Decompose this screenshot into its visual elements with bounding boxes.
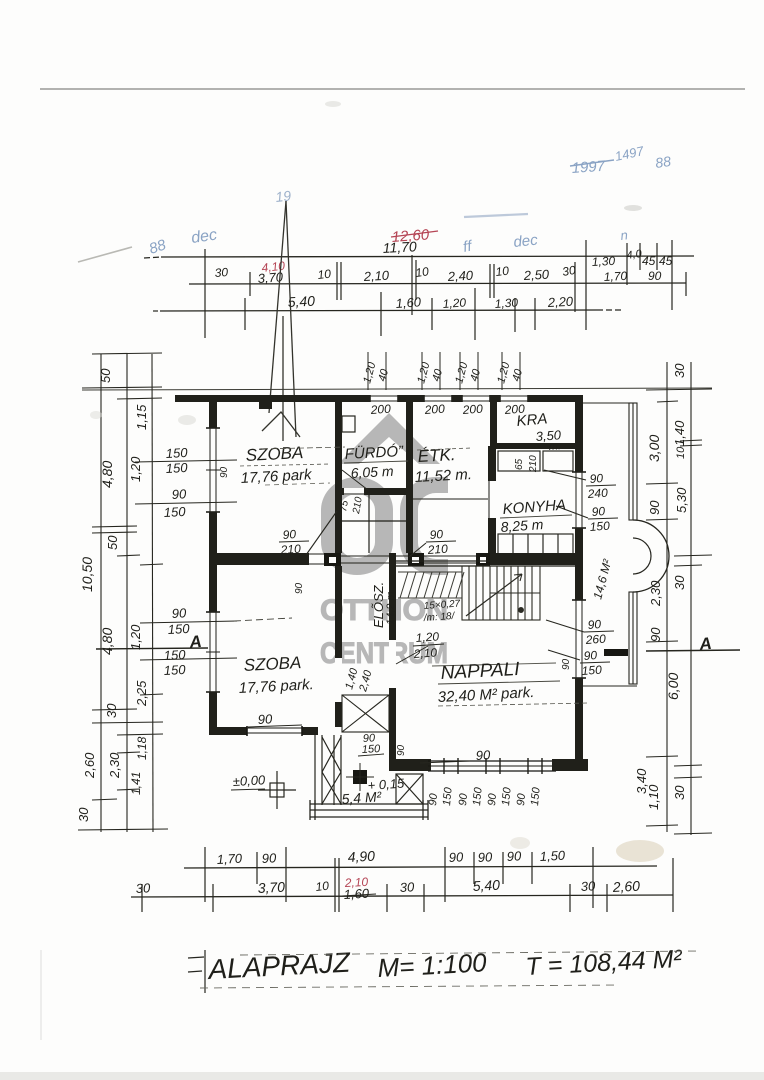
svg-text:150: 150 [163,662,186,678]
tick r3 d [474,288,476,340]
svg-text:SZOBA: SZOBA [243,653,302,675]
btick r2 [569,884,571,912]
ltick bottom [78,829,168,830]
window dim line d [140,658,237,660]
stair top line b [424,562,477,564]
wall szoba2 bottom [209,727,318,735]
rtick k [674,777,702,778]
svg-text:2,60: 2,60 [611,878,640,895]
tick [639,243,641,270]
window left 1 [209,428,217,512]
nappali top line a [396,560,575,562]
entry door X [342,695,389,732]
svg-text:2,25: 2,25 [134,680,149,707]
door head line [309,553,324,555]
window szoba2 bottom [247,727,302,735]
svg-text:19: 19 [275,187,292,205]
scan smudge b [90,411,102,419]
btick r1 [285,847,287,902]
svg-text:4,0: 4,0 [626,248,644,262]
svg-text:90: 90 [257,711,273,727]
strike through 1997 [570,160,614,166]
rtick f [674,555,712,556]
nappali door diagonal [396,646,428,664]
window dim line a [135,460,237,462]
btick r2 [338,858,340,912]
svg-text:90: 90 [587,617,602,632]
svg-text:90: 90 [583,648,598,663]
svg-text:90: 90 [448,849,464,865]
section line A left [96,648,208,649]
dim row1 lead [144,257,161,258]
svg-text:dec: dec [513,231,539,250]
svg-text:1,20: 1,20 [128,456,143,482]
ltick top [92,353,162,354]
svg-text:90: 90 [591,504,606,519]
dim row3 lead [153,310,160,312]
tick 30 [574,262,576,312]
svg-text:150: 150 [500,786,514,806]
svg-text:10,50: 10,50 [79,557,95,592]
vestibule shelf line [342,520,413,522]
svg-text:10: 10 [317,267,332,282]
svg-text:2,50: 2,50 [522,267,550,283]
etk open boundary [413,498,488,500]
scan smudge a [178,415,196,425]
svg-text:5,30: 5,30 [674,487,689,513]
svg-text:45: 45 [659,254,673,268]
svg-text:150: 150 [471,786,485,806]
svg-text:2,40: 2,40 [446,268,474,284]
window dim line b [135,502,237,504]
staircase [462,566,540,620]
ltick e [140,694,163,695]
svg-text:30: 30 [580,878,596,894]
btick r2 [672,858,674,912]
svg-text:200: 200 [423,402,445,417]
svg-text:1,50: 1,50 [539,848,566,864]
btick r2 [606,884,608,912]
btick r1 [592,847,594,908]
double tick b2 [415,260,417,300]
svg-text:150: 150 [441,786,455,806]
porch left band with X [314,735,316,805]
rtick l [646,825,678,826]
title guide bottom [200,985,620,988]
door gap konyha [498,534,573,554]
window tick [457,758,459,774]
svg-text:m.: m. [548,440,561,453]
svg-text:90: 90 [427,792,440,806]
svg-text:/m: 18/: /m: 18/ [422,611,455,624]
rtick m [674,833,712,834]
wall nappali bottom left [389,759,431,771]
svg-text:90: 90 [171,486,187,502]
left dim verticals [100,354,102,832]
svg-text:10: 10 [414,264,429,280]
window east nappali [575,600,583,678]
svg-text:4,80: 4,80 [99,461,115,488]
section line A right [646,650,740,651]
svg-text:200: 200 [461,402,483,417]
svg-text:150: 150 [165,445,188,461]
tick r3 [244,298,246,330]
svg-text:5,40: 5,40 [287,293,315,310]
rtick e [646,519,678,520]
guide line etk [417,448,472,450]
svg-text:1,30: 1,30 [591,254,615,269]
benchmark crosshair square [258,771,296,809]
svg-text:30: 30 [399,879,415,895]
svg-text:150: 150 [167,621,190,637]
svg-text:NAPPALI: NAPPALI [440,659,521,684]
wall furdo-etk [406,402,413,494]
wall szoba1 bottom [209,553,309,565]
furdo door diagonal [342,470,368,490]
dim row2 line [189,283,686,284]
svg-text:3,70: 3,70 [257,879,285,896]
title tick [204,950,206,993]
svg-text:SZOBA: SZOBA [245,443,304,465]
svg-text:210: 210 [528,455,539,473]
guide line nappali top [432,663,556,666]
tick r3 b [380,292,382,336]
rtick a [646,389,712,390]
terrace semicircle steps [633,520,669,592]
svg-text:1,20: 1,20 [442,295,467,311]
stair top line a [424,555,477,557]
svg-text:30: 30 [672,575,687,590]
window dim line c [140,621,237,623]
window left 2 [209,612,217,692]
wall left exterior [209,395,217,735]
wall corridor left [335,566,342,727]
btick r2 [423,884,425,912]
svg-text:±0,00: ±0,00 [232,772,266,789]
terrace door sill [604,649,628,656]
tick r3 c [431,298,433,330]
window top 2 [424,395,452,402]
svg-text:10: 10 [675,446,687,459]
wall vestibule left [335,495,342,553]
underline nappali [438,681,560,684]
tick [249,272,251,296]
porch X box [396,774,423,804]
window tick [443,758,445,774]
dim row3 line [160,310,597,311]
svg-text:30: 30 [135,880,151,896]
underline konyha [500,515,572,518]
wall konyha bottom [490,553,583,565]
bottom dim row2 [131,895,673,897]
svg-text:50: 50 [105,535,120,550]
svg-text:2,20: 2,20 [546,294,574,310]
nappali top line b [396,565,575,567]
fold spike [269,201,286,413]
ltick f [92,709,137,710]
svg-text:2,30: 2,30 [107,752,122,779]
svg-text:ELÕSZ.: ELÕSZ. [371,582,386,628]
row2 end tick [685,272,687,296]
rtick d [646,483,678,484]
ltick mid b [92,532,137,533]
svg-text:1,70: 1,70 [216,851,243,867]
svg-text:4,90: 4,90 [347,848,375,865]
svg-text:50: 50 [98,368,113,383]
underline furdo [344,461,408,463]
ltick i [117,752,140,753]
svg-text:1,20: 1,20 [128,624,143,650]
svg-text:A: A [187,632,202,652]
svg-text:1,15: 1,15 [134,404,149,430]
window tick [527,758,529,774]
faint fold line [40,950,42,1040]
window top 3 [462,395,490,402]
svg-text:90: 90 [506,848,522,864]
door jamb block [324,553,341,566]
svg-text:6,00: 6,00 [665,673,681,700]
svg-text:150: 150 [581,663,602,678]
double tick a2 [411,255,413,315]
double tick b [340,262,342,300]
window tick [499,758,501,774]
blue smudge line [464,214,528,217]
ltick k [92,799,117,800]
watermark letter O [321,477,393,575]
double tick b3 [493,264,495,298]
scanner edge strip [0,1072,764,1080]
btick r1 [256,852,258,884]
tick r3 f [534,298,536,330]
wall nappali left [389,553,396,771]
svg-text:90: 90 [294,582,305,594]
scan smudge c [510,837,530,849]
svg-text:4,80: 4,80 [99,628,115,655]
svg-text:6,05 m: 6,05 m [350,463,394,481]
btick r2 [141,884,143,912]
column black square [353,770,367,784]
title dash b [188,971,202,972]
btick r1 [502,852,504,884]
door jamb block c [476,553,490,566]
tick [671,240,673,310]
guide line nappali [438,703,588,706]
guide line szoba1 top [262,447,345,449]
svg-text:10: 10 [495,264,510,279]
scan smudge e [624,205,642,211]
svg-text:90: 90 [647,500,662,515]
btick r1 [473,852,475,884]
ltick mid a [92,526,137,527]
watermark letter C [400,477,448,575]
kitchen cabinets top [498,451,540,471]
strike through 12,60 [391,231,438,237]
ltick wall [82,387,162,388]
svg-text:2,60: 2,60 [82,752,97,779]
top rule line [40,88,745,90]
svg-text:30: 30 [672,785,687,800]
svg-text:ÉTK.: ÉTK. [417,445,456,466]
svg-text:1,18: 1,18 [135,736,149,760]
watermark roof chevron [338,413,440,464]
ltick g [92,722,163,723]
svg-text:1,60: 1,60 [343,886,370,902]
ltick mid d [140,564,163,565]
svg-text:65: 65 [514,458,525,470]
svg-text:90: 90 [261,850,277,866]
hatched band upper flight [398,571,462,573]
svg-text:1,60: 1,60 [395,294,422,311]
porch bottom terrace bar [310,803,428,805]
svg-text:2,30: 2,30 [648,580,663,607]
extension line above plan [82,388,712,390]
wall nappali bottom right [552,759,588,771]
door jamb block b [408,553,424,566]
svg-text:30: 30 [76,807,91,822]
svg-text:1,70: 1,70 [603,269,627,284]
svg-text:11,70: 11,70 [382,238,417,256]
wall kra bottom [490,443,580,449]
ltick 2 [117,398,162,399]
svg-text:2,10: 2,10 [362,268,390,284]
svg-text:90: 90 [429,527,444,542]
svg-text:260: 260 [584,632,606,647]
right dim verticals [666,362,668,832]
title dash a [188,957,204,958]
wall kra left [490,402,497,446]
furdo fixture [342,416,355,432]
window tick [541,758,543,774]
window east konyha [575,472,583,528]
svg-text:150: 150 [163,504,186,520]
ltick j [117,789,140,790]
svg-text:210: 210 [426,542,448,557]
wall konyha left [488,446,496,553]
btick r2 [212,884,214,912]
dim row1 line [161,256,694,257]
wall furdo bottom [335,488,413,495]
svg-text:90: 90 [282,527,297,542]
dim row3 dash end [597,309,622,311]
svg-text:1,20: 1,20 [415,629,440,645]
svg-text:1,40: 1,40 [672,420,687,446]
svg-text:150: 150 [529,786,543,806]
svg-text:90: 90 [561,658,572,670]
svg-text:1997: 1997 [571,158,606,177]
svg-text:90: 90 [589,471,604,486]
svg-text:90: 90 [171,605,187,621]
wall szoba1-furdo [335,402,342,490]
svg-text:11,52 m.: 11,52 m. [414,466,472,486]
svg-text:A: A [697,634,712,654]
svg-text:FÜRDÓ”: FÜRDÓ” [344,442,404,463]
svg-text:5,40: 5,40 [472,877,500,894]
svg-text:200: 200 [369,402,391,417]
ltick mid c [117,555,140,556]
underline 0,00 [231,789,265,790]
btick r1 [204,847,206,902]
svg-text:1,10: 1,10 [646,784,661,810]
guide line szoba1 low [265,483,330,485]
tan smudge [616,840,664,862]
svg-text:150: 150 [589,519,610,534]
kitchen cabinets bottom [498,534,573,554]
rtick j [674,765,702,766]
svg-text:90: 90 [648,627,663,642]
scan smudge d [325,101,341,107]
svg-text:200: 200 [503,402,525,417]
svg-text:90: 90 [219,466,230,478]
window top 4 [500,395,528,402]
section dash left [234,618,292,621]
btick r2 [386,884,388,912]
wall top exterior [175,395,583,402]
pencil stroke [78,247,132,262]
svg-text:5,4 M²: 5,4 M² [341,788,383,807]
svg-text:45: 45 [642,254,656,268]
svg-text:10: 10 [315,879,330,894]
btick r1 [444,847,446,902]
tick [656,243,658,270]
rtick c [680,440,702,441]
svg-text:210: 210 [279,542,301,557]
svg-text:90: 90 [515,792,528,806]
svg-text:90: 90 [457,792,470,806]
svg-text:3,00: 3,00 [646,435,662,462]
tick [585,240,587,330]
tick r3 e [514,298,516,332]
rtick i [646,756,678,757]
svg-text:240: 240 [586,486,608,501]
svg-text:90: 90 [396,744,407,756]
btick r2 [334,858,336,912]
svg-text:dec: dec [190,227,218,247]
svg-text:150: 150 [163,647,186,663]
rtick b [657,401,678,402]
svg-text:88: 88 [654,153,672,171]
long tick [204,249,206,338]
svg-text:150: 150 [165,460,188,476]
ltick h [117,734,163,735]
rtick c2 [680,445,702,446]
wall hall right upper [406,494,413,553]
svg-text:30: 30 [672,363,687,378]
nappali bottom window band [428,760,556,762]
svg-text:30: 30 [104,703,119,718]
guide line [240,464,330,466]
window tick [485,758,487,774]
vestibule divider [368,495,370,553]
btick r1 [531,852,533,884]
svg-text:90: 90 [486,792,499,806]
double tick a3 [489,264,491,298]
tick [626,243,628,285]
strike 1,60 [342,894,376,896]
terrace outline [583,402,637,404]
door sill line [309,563,324,565]
svg-text:1,41: 1,41 [129,772,143,795]
title guide top [240,951,700,955]
window top 1 [370,395,398,402]
hall entry bottom line [341,562,409,564]
double tick a [336,262,338,300]
rtick h [646,641,678,642]
svg-text:14,2 m.: 14,2 m. [385,588,397,625]
hall entry top line [341,555,409,557]
svg-text:90: 90 [648,269,662,283]
rtick g [674,565,702,566]
svg-text:90: 90 [477,849,493,865]
